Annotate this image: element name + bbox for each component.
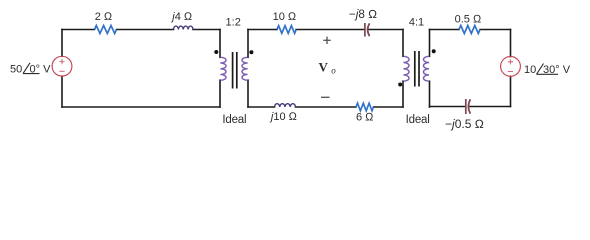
svg-text:0.5 Ω: 0.5 Ω [455, 13, 482, 25]
svg-text:j10 Ω: j10 Ω [269, 111, 298, 123]
svg-text:Ideal: Ideal [406, 114, 430, 126]
svg-text:50: 50 [10, 63, 22, 75]
svg-text:Ideal: Ideal [222, 114, 246, 126]
svg-text:4:1: 4:1 [409, 16, 424, 28]
svg-text:j4 Ω: j4 Ω [170, 11, 193, 23]
svg-text:V: V [319, 60, 329, 75]
svg-text:o: o [331, 65, 336, 75]
svg-text:−j0.5 Ω: −j0.5 Ω [445, 117, 484, 131]
svg-text:1:2: 1:2 [226, 16, 241, 28]
svg-text:2 Ω: 2 Ω [95, 11, 113, 23]
svg-text:10: 10 [524, 64, 536, 76]
svg-text:−j8 Ω: −j8 Ω [349, 8, 377, 21]
svg-text:6 Ω: 6 Ω [356, 111, 374, 123]
svg-text:10 Ω: 10 Ω [273, 11, 297, 23]
